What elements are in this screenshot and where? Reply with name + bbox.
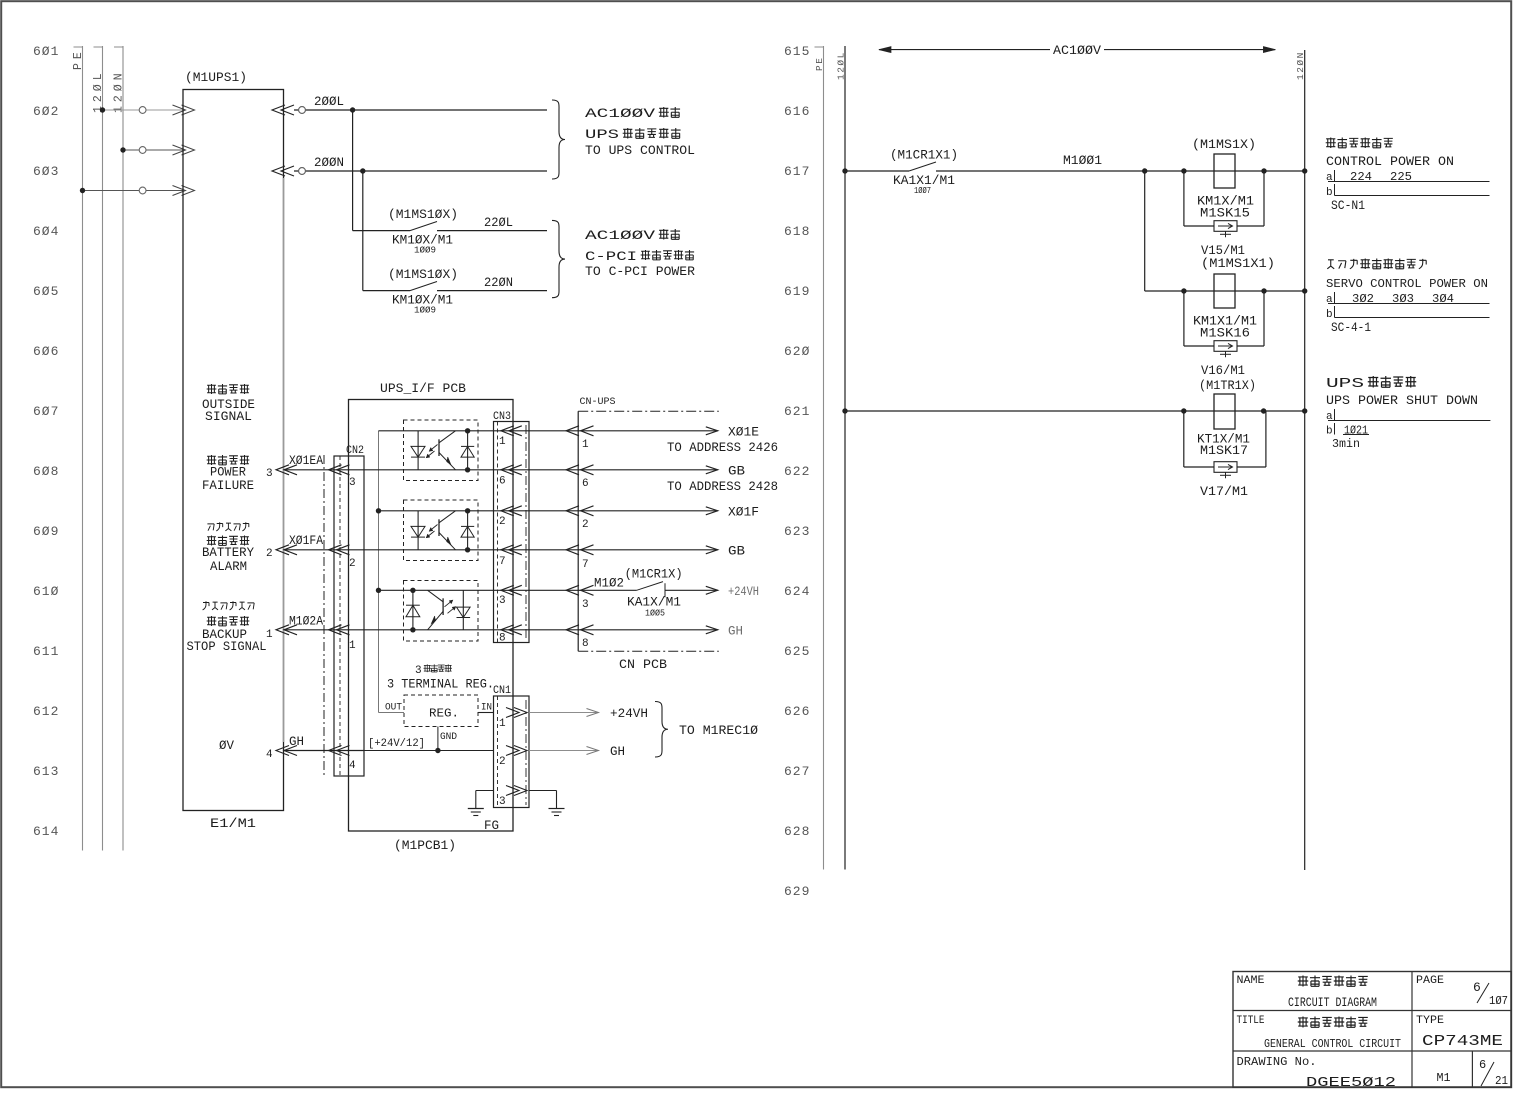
svg-text:b: b [1326, 426, 1333, 438]
svg-text:AC1ØØV: AC1ØØV [585, 106, 655, 121]
svg-text:6Ø5: 6Ø5 [33, 284, 59, 299]
svg-text:2: 2 [349, 558, 356, 570]
svg-text:6: 6 [499, 476, 506, 488]
svg-text:CONTROL POWER ON: CONTROL POWER ON [1326, 154, 1454, 169]
svg-text:1ØØ9: 1ØØ9 [414, 246, 436, 256]
svg-text:6Ø2: 6Ø2 [33, 104, 59, 119]
svg-text:SC-4-1: SC-4-1 [1331, 320, 1371, 335]
svg-text:625: 625 [784, 644, 810, 659]
svg-text:(M1TR1X): (M1TR1X) [1199, 378, 1256, 393]
svg-text:6Ø6: 6Ø6 [33, 344, 59, 359]
svg-text:FG: FG [484, 818, 499, 833]
svg-text:3: 3 [499, 595, 506, 607]
svg-text:2: 2 [499, 756, 506, 768]
svg-text:614: 614 [33, 824, 59, 839]
svg-text:6Ø7: 6Ø7 [33, 404, 59, 419]
svg-text:UPS: UPS [585, 127, 619, 142]
svg-text:[+24V/12]: [+24V/12] [368, 738, 425, 750]
svg-text:DRAWING No.: DRAWING No. [1237, 1055, 1317, 1069]
svg-text:(M1CR1X1): (M1CR1X1) [890, 148, 958, 163]
svg-text:617: 617 [784, 164, 810, 179]
svg-text:a: a [1326, 172, 1333, 184]
svg-text:TO C-PCI POWER: TO C-PCI POWER [585, 264, 695, 279]
svg-text:M1Ø2: M1Ø2 [594, 576, 624, 591]
svg-text:626: 626 [784, 704, 810, 719]
svg-text:GH: GH [728, 624, 743, 639]
svg-text:GH: GH [289, 734, 304, 749]
svg-text:12ØN: 12ØN [1295, 51, 1306, 80]
svg-text:CIRCUIT DIAGRAM: CIRCUIT DIAGRAM [1288, 995, 1377, 1010]
svg-text:REG.: REG. [429, 707, 459, 721]
svg-text:UPS POWER SHUT DOWN: UPS POWER SHUT DOWN [1326, 393, 1478, 408]
svg-text:FAILURE: FAILURE [202, 478, 254, 493]
svg-text:CN3: CN3 [493, 411, 511, 423]
svg-text:21: 21 [1495, 1074, 1508, 1088]
svg-text:AC1ØØV: AC1ØØV [1053, 43, 1101, 58]
svg-text:CN-UPS: CN-UPS [580, 397, 616, 408]
svg-text:XØ1E: XØ1E [728, 425, 759, 440]
svg-text:612: 612 [33, 704, 59, 719]
svg-text:1: 1 [499, 436, 506, 448]
svg-text:1ØØ9: 1ØØ9 [414, 306, 436, 316]
svg-text:STOP SIGNAL: STOP SIGNAL [187, 639, 267, 654]
svg-text:XØ1F: XØ1F [728, 505, 759, 520]
svg-text:4: 4 [349, 760, 356, 772]
svg-text:BATTERY: BATTERY [202, 545, 254, 560]
svg-text:1: 1 [266, 629, 273, 641]
svg-text:SC-N1: SC-N1 [1331, 198, 1365, 213]
svg-text:2ØØN: 2ØØN [314, 155, 344, 170]
svg-text:KA1X/M1: KA1X/M1 [627, 595, 681, 610]
svg-text:62Ø: 62Ø [784, 344, 810, 359]
svg-text:629: 629 [784, 884, 810, 899]
svg-text:6: 6 [1479, 1058, 1486, 1072]
svg-text:6Ø1: 6Ø1 [33, 44, 59, 59]
svg-text:TO ADDRESS 2426: TO ADDRESS 2426 [667, 440, 778, 455]
svg-text:621: 621 [784, 404, 810, 419]
svg-text:619: 619 [784, 284, 810, 299]
svg-text:UPS: UPS [1326, 376, 1364, 392]
svg-text:E1/M1: E1/M1 [210, 816, 256, 831]
svg-text:V17/M1: V17/M1 [1200, 484, 1248, 499]
svg-text:3: 3 [349, 477, 356, 489]
svg-text:M1SK17: M1SK17 [1200, 443, 1248, 458]
svg-text:623: 623 [784, 524, 810, 539]
svg-text:12ØN: 12ØN [113, 69, 126, 113]
svg-text:8: 8 [499, 633, 506, 645]
svg-text:CN PCB: CN PCB [619, 657, 667, 672]
svg-text:3: 3 [415, 665, 422, 677]
svg-text:1: 1 [349, 640, 356, 652]
svg-text:ALARM: ALARM [210, 559, 247, 574]
svg-text:M1SK16: M1SK16 [1200, 326, 1250, 341]
svg-text:611: 611 [33, 644, 59, 659]
svg-text:613: 613 [33, 764, 59, 779]
svg-text:627: 627 [784, 764, 810, 779]
svg-text:PE: PE [814, 57, 825, 71]
svg-text:CP743ME: CP743ME [1422, 1033, 1503, 1050]
svg-text:(M1MS1ØX): (M1MS1ØX) [388, 267, 458, 282]
svg-text:GND: GND [440, 732, 457, 743]
svg-text:GB: GB [728, 464, 745, 479]
svg-text:C-PCI: C-PCI [585, 249, 637, 264]
svg-text:624: 624 [784, 584, 810, 599]
svg-text:TYPE: TYPE [1416, 1015, 1444, 1027]
svg-text:SIGNAL: SIGNAL [205, 409, 252, 424]
svg-text:TO UPS CONTROL: TO UPS CONTROL [585, 143, 695, 158]
svg-text:ØV: ØV [219, 738, 234, 753]
svg-text:(M1UPS1): (M1UPS1) [185, 70, 247, 85]
svg-text:618: 618 [784, 224, 810, 239]
svg-text:3min: 3min [1332, 437, 1360, 451]
svg-text:+24VH: +24VH [610, 706, 648, 721]
svg-text:628: 628 [784, 824, 810, 839]
svg-text:6Ø3: 6Ø3 [33, 164, 59, 179]
svg-text:6Ø8: 6Ø8 [33, 464, 59, 479]
svg-text:1ØØ7: 1ØØ7 [914, 186, 931, 196]
svg-text:3: 3 [266, 468, 273, 480]
svg-text:3 TERMINAL REG.: 3 TERMINAL REG. [387, 677, 494, 692]
svg-text:+24VH: +24VH [728, 584, 759, 599]
svg-text:NAME: NAME [1237, 975, 1265, 987]
svg-text:615: 615 [784, 44, 810, 59]
svg-text:22ØL: 22ØL [484, 215, 513, 230]
svg-text:GH: GH [610, 744, 625, 759]
svg-text:61Ø: 61Ø [33, 584, 59, 599]
svg-text:1ØØ5: 1ØØ5 [645, 609, 665, 619]
svg-text:(M1CR1X): (M1CR1X) [625, 567, 683, 582]
svg-text:M1: M1 [1437, 1071, 1451, 1085]
svg-text:(M1MS1ØX): (M1MS1ØX) [388, 207, 458, 222]
svg-text:2: 2 [499, 516, 506, 528]
svg-text:1Ø7: 1Ø7 [1489, 994, 1508, 1008]
svg-text:1: 1 [499, 718, 506, 730]
svg-text:6Ø4: 6Ø4 [33, 224, 59, 239]
svg-text:3: 3 [499, 796, 506, 808]
svg-text:(M1MS1X1): (M1MS1X1) [1201, 256, 1275, 271]
svg-text:V16/M1: V16/M1 [1201, 363, 1245, 378]
svg-text:M1SK15: M1SK15 [1200, 206, 1250, 221]
svg-text:PAGE: PAGE [1416, 975, 1444, 987]
svg-text:12ØL: 12ØL [836, 51, 847, 80]
svg-text:1Ø21: 1Ø21 [1344, 424, 1368, 438]
svg-text:IN: IN [481, 703, 492, 714]
svg-text:616: 616 [784, 104, 810, 119]
svg-text:3: 3 [582, 599, 589, 611]
svg-text:AC1ØØV: AC1ØØV [585, 228, 655, 243]
svg-text:M1ØØ1: M1ØØ1 [1063, 153, 1102, 168]
svg-text:CN1: CN1 [493, 685, 511, 697]
svg-text:2: 2 [266, 548, 273, 560]
svg-text:XØ1FA: XØ1FA [289, 533, 323, 548]
svg-text:22ØN: 22ØN [484, 275, 513, 290]
svg-text:GENERAL CONTROL CIRCUIT: GENERAL CONTROL CIRCUIT [1264, 1037, 1401, 1051]
svg-text:DGEE5Ø12: DGEE5Ø12 [1306, 1075, 1396, 1091]
svg-text:OUT: OUT [385, 703, 402, 714]
svg-text:a: a [1326, 411, 1333, 423]
svg-text:12ØL: 12ØL [92, 69, 105, 113]
svg-text:2ØØL: 2ØØL [314, 94, 344, 109]
svg-text:(M1MS1X): (M1MS1X) [1192, 137, 1256, 152]
svg-text:6Ø9: 6Ø9 [33, 524, 59, 539]
svg-text:622: 622 [784, 464, 810, 479]
svg-text:1: 1 [582, 439, 589, 451]
svg-text:SERVO CONTROL POWER ON: SERVO CONTROL POWER ON [1326, 277, 1488, 291]
svg-text:7: 7 [499, 556, 506, 568]
svg-text:8: 8 [582, 638, 589, 650]
svg-text:TITLE: TITLE [1237, 1015, 1265, 1027]
svg-text:a: a [1326, 294, 1333, 306]
svg-text:2: 2 [582, 519, 589, 531]
svg-text:6: 6 [1473, 980, 1481, 995]
svg-text:PE: PE [72, 48, 85, 70]
svg-text:(M1PCB1): (M1PCB1) [394, 838, 456, 853]
svg-text:M1Ø2A: M1Ø2A [289, 614, 323, 629]
svg-text:7: 7 [582, 559, 589, 571]
svg-text:TO M1REC1Ø: TO M1REC1Ø [679, 723, 758, 738]
svg-text:XØ1EA: XØ1EA [289, 453, 323, 468]
svg-text:UPS_I/F PCB: UPS_I/F PCB [380, 381, 466, 396]
svg-text:GB: GB [728, 544, 745, 559]
svg-text:6: 6 [582, 478, 589, 490]
svg-text:4: 4 [266, 749, 273, 761]
svg-text:TO ADDRESS 2428: TO ADDRESS 2428 [667, 479, 778, 494]
